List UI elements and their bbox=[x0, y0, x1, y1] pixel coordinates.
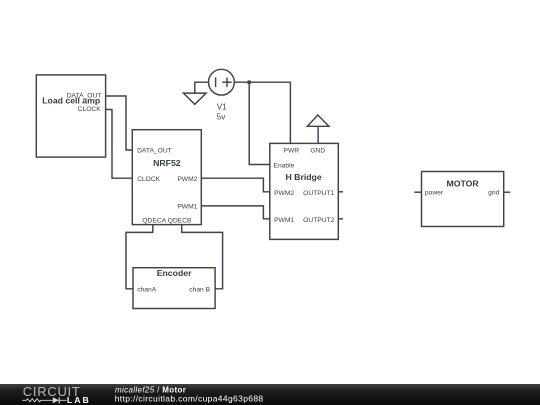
svg-text:CLOCK: CLOCK bbox=[137, 176, 161, 183]
svg-text:QDECA QDECB: QDECA QDECB bbox=[142, 218, 192, 225]
svg-text:OUTPUT2: OUTPUT2 bbox=[303, 217, 334, 224]
svg-text:LAB: LAB bbox=[67, 395, 91, 405]
svg-text:gnd: gnd bbox=[488, 190, 499, 197]
svg-text:H Bridge: H Bridge bbox=[285, 172, 321, 182]
svg-text:GND: GND bbox=[310, 148, 325, 155]
svg-text:PWM2: PWM2 bbox=[177, 176, 197, 183]
svg-text:V1: V1 bbox=[217, 102, 227, 111]
svg-text:power: power bbox=[425, 190, 444, 197]
svg-text:DATA_OUT: DATA_OUT bbox=[137, 148, 172, 155]
svg-text:chan B: chan B bbox=[189, 286, 210, 293]
svg-text:Enable: Enable bbox=[274, 163, 295, 170]
svg-text:PWM2: PWM2 bbox=[274, 190, 294, 197]
svg-text:chanA: chanA bbox=[137, 286, 157, 293]
svg-text:PWM1: PWM1 bbox=[177, 204, 197, 211]
svg-text:PWM1: PWM1 bbox=[274, 217, 294, 224]
svg-text:NRF52: NRF52 bbox=[153, 158, 181, 168]
svg-text:Encoder: Encoder bbox=[157, 268, 192, 278]
svg-text:PWR: PWR bbox=[283, 148, 299, 155]
svg-text:5v: 5v bbox=[217, 112, 227, 121]
svg-text:MOTOR: MOTOR bbox=[447, 179, 480, 189]
svg-text:OUTPUT1: OUTPUT1 bbox=[303, 190, 334, 197]
svg-text:Load cell amp: Load cell amp bbox=[42, 96, 100, 106]
svg-text:http://circuitlab.com/cupa44g6: http://circuitlab.com/cupa44g63p688 bbox=[115, 394, 264, 404]
svg-text:CLOCK: CLOCK bbox=[78, 106, 102, 113]
